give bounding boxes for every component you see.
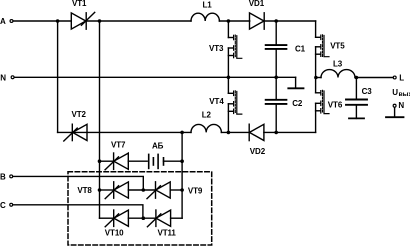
svg-text:L3: L3	[333, 59, 343, 68]
wire VT6 source down to L2 rail corner	[315, 103, 317, 132]
wire VD1 to top-right corner	[264, 20, 315, 22]
terminal A	[10, 20, 13, 23]
battery AB	[149, 154, 164, 168]
diode VD1	[250, 13, 265, 29]
wire L3 node to inductor	[316, 77, 321, 79]
wire battery to right column	[164, 160, 183, 162]
wire VT1-cathode column down to VT8 row	[99, 21, 101, 218]
node L2 rail / selector right column junction	[180, 131, 184, 135]
node N rail / VT3-VT4 junction	[227, 76, 231, 80]
wire VT4 source down to L2 rail	[227, 104, 229, 133]
ground tap on N rail	[288, 77, 303, 88]
transistor VT6	[316, 90, 329, 113]
svg-text:B: B	[0, 173, 6, 182]
svg-text:вых: вых	[399, 91, 410, 98]
node B phase / VT8-VT9 midpoint	[142, 188, 146, 192]
wire L3 right to output L	[355, 77, 393, 79]
svg-text:L: L	[399, 73, 404, 82]
svg-text:VT8: VT8	[77, 186, 92, 195]
wire VT1 to L1	[86, 20, 191, 22]
thyristor VT7	[105, 153, 128, 170]
wire VT5 source down to L3 node	[315, 47, 317, 93]
wire VT9 to right column	[170, 189, 182, 191]
svg-text:C1: C1	[295, 44, 306, 53]
terminal N output	[393, 104, 396, 107]
wire top rail A to VT1	[13, 20, 71, 22]
svg-text:C3: C3	[362, 87, 373, 96]
svg-text:A: A	[0, 17, 6, 26]
svg-text:L2: L2	[202, 111, 212, 120]
wire L2 rail	[58, 131, 191, 133]
wire VT11 to right column	[171, 217, 183, 219]
wire N rail	[14, 76, 295, 78]
dashed selector box	[68, 172, 212, 245]
diode VD2	[249, 124, 264, 140]
thyristor VT1	[71, 12, 94, 29]
svg-text:L1: L1	[203, 0, 213, 9]
node VT1 cathode / rectifier column junction	[98, 19, 102, 23]
inductor L1	[191, 13, 219, 21]
wire corner down to VT5 drain	[315, 21, 317, 37]
svg-text:VT4: VT4	[209, 97, 224, 106]
wire C1 top lead	[275, 21, 277, 45]
inductor L2	[191, 124, 221, 132]
node L2/VT4 junction	[227, 131, 231, 135]
thyristor VT10	[105, 210, 128, 227]
wire L1 to VD1	[219, 20, 249, 22]
wire C to selector mid column	[13, 205, 143, 218]
wire VD2 to VT6 corner	[264, 131, 316, 133]
node N rail / C1-C2 junction	[274, 76, 278, 80]
wire selector right column down	[181, 132, 183, 218]
svg-text:N: N	[0, 73, 6, 82]
svg-text:VT5: VT5	[330, 42, 345, 51]
terminal N	[11, 76, 14, 79]
transistor VT3	[228, 35, 241, 58]
thyristor VT9	[147, 182, 170, 199]
thyristor VT11	[147, 210, 170, 227]
capacitor C2	[266, 100, 287, 104]
node boost L1/VT3 junction	[227, 19, 231, 23]
wire L2 to VD2	[221, 131, 249, 133]
node C1 top junction	[274, 19, 278, 23]
svg-text:N: N	[398, 101, 404, 110]
svg-text:VD2: VD2	[250, 147, 266, 156]
svg-text:VT1: VT1	[72, 0, 87, 8]
node VT5/VT6/L3 junction	[314, 76, 318, 80]
terminal L output	[393, 76, 396, 79]
svg-text:АБ: АБ	[152, 142, 164, 151]
capacitor C3	[346, 100, 367, 105]
thyristor VT2	[64, 124, 87, 141]
svg-text:VT9: VT9	[188, 186, 203, 195]
wire VT8 to VT9	[128, 189, 155, 191]
terminal B	[10, 175, 13, 178]
wire C1 bottom to N rail and to C2	[275, 49, 277, 100]
svg-text:VT3: VT3	[209, 44, 224, 53]
svg-text:C2: C2	[292, 99, 303, 108]
wire VT3 drain from top rail	[227, 21, 229, 38]
svg-text:VT2: VT2	[72, 110, 87, 119]
ground under N output	[386, 108, 404, 118]
node L2 rail / C2 junction	[274, 131, 278, 135]
wire VT7 to battery	[128, 160, 147, 162]
wire left column from A-node down to VT2 corner	[57, 21, 59, 132]
svg-text:U: U	[392, 88, 398, 97]
transistor VT5	[316, 35, 329, 57]
wire B to selector mid column	[13, 176, 143, 190]
wire C2 bottom to L2 rail	[275, 104, 277, 132]
node battery row left junction	[98, 159, 102, 163]
inductor L3	[321, 70, 355, 78]
wire VT3 source down through N rail to VT4 drain	[227, 48, 229, 93]
wire VT10 row left	[100, 217, 114, 219]
terminal C	[10, 203, 13, 206]
wire VT8 row left	[100, 189, 114, 191]
wire battery row left	[100, 160, 114, 162]
capacitor C1	[266, 45, 287, 49]
node VT8 row left junction	[98, 188, 102, 192]
ground under C3	[349, 105, 364, 119]
node battery row right junction	[180, 159, 184, 163]
wire VT10 to VT11	[128, 217, 156, 219]
thyristor VT8	[105, 182, 128, 199]
node C phase / VT10-VT11 midpoint	[142, 216, 146, 220]
svg-text:VD1: VD1	[249, 0, 265, 8]
svg-text:VT10: VT10	[105, 229, 124, 238]
svg-text:VT7: VT7	[111, 141, 126, 150]
node top-rail / left column junction	[56, 19, 60, 23]
wire C3 top lead	[355, 78, 357, 100]
svg-text:VT11: VT11	[158, 229, 177, 238]
transistor VT4	[228, 91, 241, 114]
node C3 top junction	[355, 76, 359, 80]
svg-text:VT6: VT6	[328, 101, 343, 110]
node VT9 row right junction	[180, 188, 184, 192]
svg-text:C: C	[0, 201, 6, 210]
